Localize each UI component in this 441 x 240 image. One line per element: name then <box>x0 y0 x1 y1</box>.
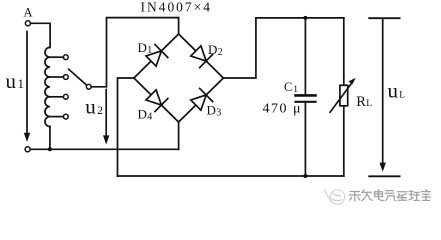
svg-text:R: R <box>356 94 366 110</box>
diode D4 <box>146 90 168 112</box>
svg-text:4: 4 <box>147 112 152 123</box>
svg-text:IN4007×4: IN4007×4 <box>141 0 211 15</box>
wire bridge top stub <box>178 18 180 34</box>
wire terminal A to transformer top <box>31 23 50 47</box>
svg-text:1: 1 <box>18 76 25 91</box>
terminal A <box>25 21 30 26</box>
svg-text:D: D <box>138 107 147 122</box>
wire bottom AC rail (terminal B to bridge bottom) <box>30 148 178 150</box>
junction winding bottom / bottom rail <box>48 147 52 151</box>
wire DC+ top rail <box>256 17 344 19</box>
diode D1 <box>146 44 168 66</box>
svg-text:D: D <box>138 40 147 55</box>
svg-text:u: u <box>388 79 399 103</box>
junction C1 bottom <box>303 174 307 178</box>
wire DC- bottom rail <box>118 175 344 177</box>
svg-text:D: D <box>208 42 217 57</box>
voltage arrow u1 <box>24 32 30 143</box>
wire bridge edge left-top <box>134 34 179 78</box>
svg-text:D: D <box>207 103 216 118</box>
resistor RL (variable) <box>330 18 356 176</box>
watermark logo <box>325 190 345 205</box>
watermark text 东农电气实验室 (drawn strokes, grey) <box>350 190 431 201</box>
junction C1 top <box>303 16 307 20</box>
capacitor C1 <box>296 18 316 176</box>
diode D2 <box>191 46 213 68</box>
wire bridge edge bottom-right <box>179 78 224 122</box>
wire bridge bottom stub <box>178 122 180 149</box>
tap 4 <box>50 116 64 118</box>
svg-text:A: A <box>23 6 32 20</box>
voltage arrow u2 <box>103 90 109 145</box>
tap 2 <box>50 76 64 78</box>
tap 3 <box>50 96 64 98</box>
svg-text:3: 3 <box>216 108 221 119</box>
wire bridge edge left-bottom <box>134 78 179 122</box>
svg-text:2: 2 <box>97 105 103 117</box>
svg-text:L: L <box>399 91 405 101</box>
svg-text:u: u <box>85 94 96 118</box>
wire bridge edge top-right <box>179 34 224 78</box>
switch S arm <box>69 69 87 85</box>
svg-text:2: 2 <box>218 47 223 58</box>
tap 1 <box>50 56 64 58</box>
svg-text:u: u <box>6 69 17 93</box>
wire bridge left node to DC- drop <box>118 78 134 176</box>
svg-text:L: L <box>366 99 372 109</box>
svg-text:1: 1 <box>293 85 298 95</box>
wire switch to bridge top (riser and top AC rail) <box>91 18 178 87</box>
terminal B (bottom left) <box>25 147 30 152</box>
wire bridge right node to DC+ rail <box>223 18 256 78</box>
diode D3 <box>191 88 213 110</box>
wire winding bottom to rail <box>49 127 51 150</box>
svg-text:C: C <box>284 80 292 94</box>
svg-text:470 μ: 470 μ <box>263 102 303 117</box>
switch S pivot <box>86 84 91 89</box>
voltage arrow uL <box>369 18 399 176</box>
transformer winding T1 <box>45 47 50 126</box>
svg-text:1: 1 <box>147 45 152 56</box>
